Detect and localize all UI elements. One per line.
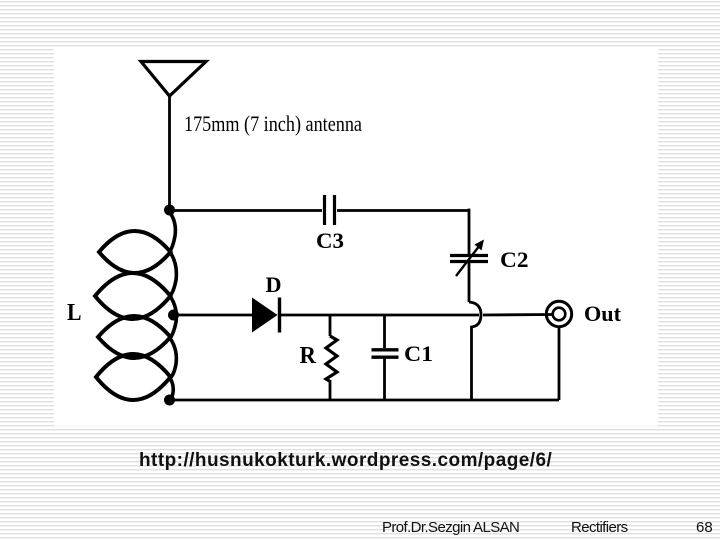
svg-text:D: D bbox=[266, 272, 282, 297]
capacitor C2 (variable) bbox=[450, 256, 488, 262]
resistor R bbox=[329, 315, 332, 336]
svg-text:L: L bbox=[67, 300, 82, 326]
white content panel bbox=[54, 49, 658, 426]
inductor L coil wire bbox=[170, 212, 176, 252]
svg-text:175mm (7 inch) antenna: 175mm (7 inch) antenna bbox=[184, 111, 362, 136]
node B bbox=[168, 310, 179, 321]
node A bbox=[164, 205, 175, 216]
wire top right (C3 to corner) bbox=[337, 209, 469, 212]
footer bbox=[0, 518, 720, 520]
wire diode to hop bbox=[280, 314, 480, 317]
antenna A1 bbox=[141, 62, 206, 97]
wire hop over middle wire bbox=[469, 302, 481, 400]
wire corner down to C2 bbox=[468, 209, 471, 254]
wire top left (node A to C3) bbox=[170, 209, 323, 212]
output connector Out bbox=[546, 301, 571, 326]
inductor L loop 3 bbox=[98, 316, 171, 358]
wire hop to Out bbox=[483, 313, 553, 316]
node C bbox=[164, 395, 175, 406]
url caption bbox=[139, 450, 552, 472]
inductor L loop 4 bbox=[96, 354, 171, 400]
wire C2 down to hop bbox=[468, 263, 471, 302]
wire node B to diode bbox=[174, 314, 253, 317]
inductor L loop 1 bbox=[99, 231, 171, 273]
svg-text:C2: C2 bbox=[500, 247, 529, 272]
svg-text:R: R bbox=[300, 343, 317, 369]
svg-text:C1: C1 bbox=[404, 341, 433, 366]
bottom wire bbox=[170, 399, 560, 402]
inductor L loop 2 bbox=[95, 273, 171, 319]
svg-text:Out: Out bbox=[584, 301, 622, 326]
capacitor C3 bbox=[325, 195, 335, 225]
wire antenna to node A bbox=[168, 95, 171, 210]
svg-text:C3: C3 bbox=[316, 228, 344, 253]
arrow of C2 bbox=[456, 240, 484, 277]
capacitor C1 bbox=[383, 315, 386, 348]
diode D bbox=[252, 298, 278, 333]
wire Out down bbox=[558, 327, 561, 400]
